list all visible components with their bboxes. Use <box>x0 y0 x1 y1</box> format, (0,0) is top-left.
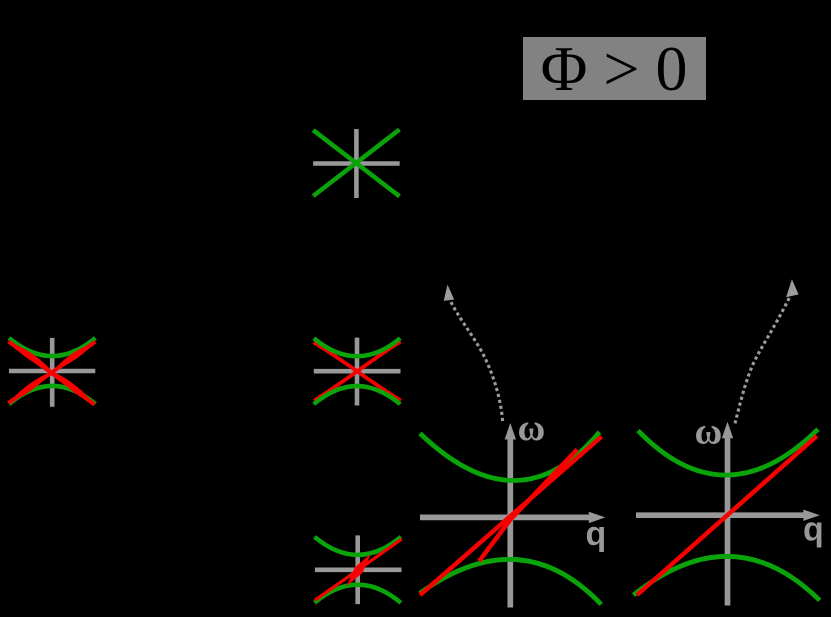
big plot B1: red line 2 (kinked at origin) <box>479 449 577 561</box>
big plot B1: green lower hyperbola <box>420 559 601 604</box>
mini plot M0: red crossing line 1 <box>9 342 95 405</box>
mini plot M2: red crossing curve 1 <box>314 342 401 400</box>
mini plot M3: red tangent line <box>315 539 402 600</box>
mini plot M0: red leaf arm top-right <box>52 342 95 372</box>
mini plot M2 (center middle): axes <box>314 338 401 406</box>
mini plot M0: red leaf arm top-left <box>9 342 53 372</box>
big plot B1: vertical axis <box>507 437 513 608</box>
mini plot M3: red center lens <box>347 554 371 587</box>
mini plot M3: green hyperbolas <box>315 537 401 603</box>
mini plot M0: red crossing line 2 <box>9 342 96 403</box>
svg-text:ω: ω <box>518 407 546 449</box>
mini plot M0: red leaf arm bottom-left <box>9 371 53 403</box>
big plot B2: vertical axis <box>725 438 731 606</box>
big plot B1: red line 1 <box>420 437 602 595</box>
dashed flow arrow A1: arrowhead <box>444 285 455 301</box>
svg-text:Φ > 0: Φ > 0 <box>541 33 688 104</box>
big plot B1: horizontal axis <box>420 515 590 521</box>
big plot B2: green upper hyperbola <box>638 429 818 475</box>
mini plot M2: red crossing curve 2 <box>314 342 400 401</box>
mini plot M1: green crossing lines <box>313 130 399 197</box>
label box Phi > 0 <box>523 37 706 100</box>
big plot B1: green upper hyperbola <box>420 432 600 480</box>
svg-text:q: q <box>586 515 607 553</box>
svg-text:q: q <box>803 511 824 549</box>
big plot B2: green lower hyperbola <box>634 556 820 600</box>
dashed flow arrow A2: curve <box>735 298 790 424</box>
mini plot M0 (left middle): axes <box>9 338 95 407</box>
dashed flow arrow A2: arrowhead <box>786 279 799 297</box>
big plot B2: red line <box>637 436 817 595</box>
mini plot M1 (top middle): axes <box>313 129 400 198</box>
mini plot M2: green hyperbolas <box>314 338 400 404</box>
mini plot M0: red leaf arm bottom-right <box>52 371 94 404</box>
big plot B2: horizontal axis arrowhead <box>803 510 820 521</box>
big plot B2: vertical axis arrowhead <box>722 422 733 439</box>
mini plot M0: green hyperbolas <box>9 338 95 404</box>
svg-text:ω: ω <box>695 411 723 453</box>
big plot B2: horizontal axis <box>636 512 805 518</box>
mini plot M3 (bottom middle): axes <box>315 535 402 604</box>
dashed flow arrow A1: curve <box>450 299 503 421</box>
big plot B1: vertical axis arrowhead <box>505 423 516 440</box>
big plot B1: horizontal axis arrowhead <box>589 512 606 523</box>
